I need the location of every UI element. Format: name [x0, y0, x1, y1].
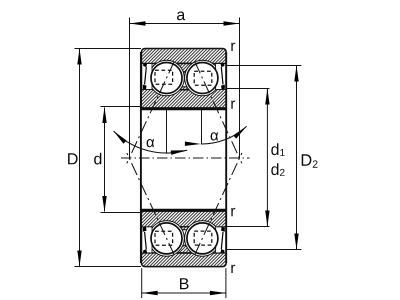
pressure line top-left (dash-dot): [127, 62, 174, 164]
angle arc right: [201, 126, 247, 144]
seal slot top-left: [142, 64, 152, 90]
face line right: [225, 52, 227, 263]
dimension a line: [130, 23, 240, 25]
outer ring bottom section (hatched): [141, 253, 226, 267]
ball top-right: [187, 63, 218, 94]
inner ring top section (hatched): [141, 90, 226, 108]
dimension B extension left: [141, 268, 143, 298]
dimension D2 line: [296, 66, 298, 250]
cage pocket top-left (dashed): [155, 70, 173, 84]
cage pocket bottom-left (dashed): [155, 231, 173, 245]
dimension d line: [104, 108, 106, 212]
angle arrow right-inner: [185, 142, 201, 147]
label alpha right: [211, 132, 219, 140]
label r inner bottom: [231, 208, 235, 216]
dimension a extension left: [129, 18, 131, 159]
seal top-left: [143, 63, 147, 89]
seal slot top-right: [216, 64, 226, 90]
label d: [94, 153, 101, 165]
dimension a extension right: [239, 18, 241, 159]
dimension d1 d2 leader top: [226, 88, 269, 90]
outer raceway arc bottom-left: [149, 221, 185, 257]
outer raceway arc top-right: [185, 60, 221, 96]
arrow B right: [210, 291, 226, 295]
label D: [68, 153, 78, 164]
arrow B left: [142, 291, 158, 295]
ball bottom-right: [187, 223, 218, 254]
bore line top: [141, 108, 226, 111]
seal top-right: [220, 63, 224, 89]
label alpha left: [147, 139, 155, 147]
label B: [180, 278, 189, 289]
label r bottom corner: [231, 265, 235, 273]
outer raceway arc top-left: [149, 60, 185, 96]
dimension D2 leader top: [226, 65, 301, 67]
label a: [177, 12, 185, 21]
dimension d1 d2 line: [266, 89, 268, 227]
arrow d bottom: [102, 196, 106, 212]
dimension B line: [142, 292, 226, 294]
seal slot bottom-left: [142, 227, 152, 253]
inner ring bottom section (hatched): [141, 209, 226, 227]
dimension d leader top: [101, 106, 142, 108]
dimension D line: [79, 49, 81, 267]
center axis line: [121, 157, 250, 159]
dimension D leader bottom: [75, 266, 142, 268]
angle arc left: [114, 131, 188, 153]
arrow d1d2 top: [265, 89, 269, 105]
dimension D leader top: [75, 48, 142, 50]
seal bottom-right: [220, 227, 224, 253]
pressure line bottom-left (dash-dot): [127, 153, 174, 255]
dimension d leader bottom: [101, 212, 142, 214]
dimension d1 d2 leader bottom: [226, 226, 269, 228]
angle arrow left-inner: [171, 148, 187, 155]
arrow D top: [77, 49, 81, 65]
label r inner top: [231, 101, 235, 109]
dimension D2 leader bottom: [226, 249, 301, 251]
ball bottom-left: [151, 223, 182, 254]
ball top-left: [151, 63, 182, 94]
arrow D2 top: [294, 66, 298, 82]
seal slot bottom-right: [216, 227, 226, 253]
cage pocket bottom-right (dashed): [194, 231, 212, 245]
pressure line top-right (dash-dot): [195, 62, 242, 164]
label d1: [271, 143, 284, 156]
arrow D bottom: [77, 251, 81, 267]
label D2: [302, 154, 318, 167]
pressure line bottom-right (dash-dot): [195, 153, 242, 255]
arrow a right: [224, 21, 240, 25]
inner ring bottom center ridge: [179, 227, 190, 230]
arrow d1d2 bottom: [265, 211, 269, 227]
seal bottom-left: [143, 227, 147, 253]
radial reference line left ball: [166, 108, 168, 153]
label r top corner: [231, 43, 235, 51]
radial reference line right ball: [201, 108, 203, 144]
outer raceway arc bottom-right: [185, 221, 221, 257]
arrow d top: [102, 107, 106, 123]
outer ring top raceway wedge: [172, 63, 197, 72]
arrow a left: [130, 21, 146, 25]
arrow D2 bottom: [294, 234, 298, 250]
inner ring top center ridge: [179, 87, 190, 90]
angle arrow right-outer: [233, 125, 248, 139]
outer ring top section (hatched): [141, 49, 226, 64]
face line left: [140, 52, 142, 263]
label d2: [271, 163, 284, 176]
angle arrow left-outer: [112, 129, 127, 143]
bore line bottom: [141, 209, 226, 212]
dimension B extension right: [225, 268, 227, 298]
outer ring bottom raceway wedge: [172, 245, 197, 253]
cage pocket top-right (dashed): [194, 71, 212, 85]
